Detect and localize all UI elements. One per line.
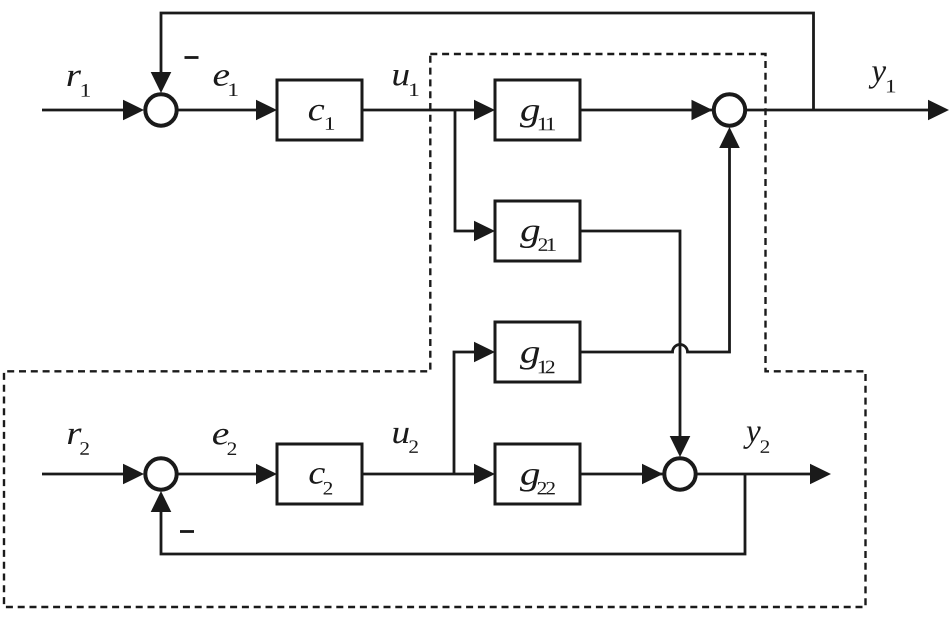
wire y1 feedback to S1: [161, 13, 814, 110]
label g22 in block: [520, 469, 555, 494]
label y2: [743, 427, 769, 453]
arrow e2 into block c2: [256, 464, 277, 485]
label g21 in block: [520, 225, 556, 250]
summing junction S1: [145, 94, 176, 125]
wire g22 output to summing junction S4: [580, 473, 666, 476]
wire y2 output with feedback tap node: [697, 473, 813, 476]
block c2: [277, 444, 362, 504]
wire u2 : block c2 to block g22 with branch node: [362, 473, 478, 476]
summing junction S2: [145, 458, 176, 489]
label r1: [67, 70, 90, 96]
arrow feedback into S1 top: [151, 72, 172, 93]
label g12 in block: [520, 347, 555, 373]
arrow g21 path into S4 top: [670, 436, 691, 457]
wire e2 : S2 to block c2: [178, 473, 260, 476]
arrow g12 path into S3 bottom: [719, 127, 740, 148]
label c2 in block: [310, 468, 333, 495]
wire g11 output to summing junction S3: [580, 109, 716, 112]
arrow u1 into block g11: [474, 100, 495, 121]
wire r1 input: [42, 109, 126, 112]
wire u1 : block c1 to block g11 with branch node: [362, 109, 478, 112]
wire r2 input: [42, 473, 126, 476]
minus sign at S2: [180, 530, 194, 533]
arrow e1 into block c1: [256, 100, 277, 121]
wire e1 : S1 to block c1: [178, 109, 260, 112]
arrow u2 into block g22: [474, 464, 495, 485]
label e1: [214, 70, 238, 96]
label u2: [393, 428, 418, 453]
label u1: [393, 70, 418, 96]
arrow feedback into S2 bottom: [151, 491, 172, 512]
block g11: [495, 80, 580, 140]
summing junction S4: [664, 458, 695, 489]
label e2: [213, 429, 236, 455]
label r2: [68, 428, 89, 454]
wire g12 output with crossover hop up to S3: [580, 144, 730, 352]
label y1: [869, 66, 896, 92]
arrow r2 into summing junction S2: [123, 464, 144, 485]
label g11 in block: [520, 105, 555, 130]
block c1: [277, 80, 362, 140]
wire y1 output with feedback tap node: [747, 109, 931, 112]
arrow into block g21: [474, 221, 495, 242]
summing junction S3: [714, 94, 745, 125]
arrow r1 into summing junction S1: [123, 100, 144, 121]
arrow into block g12: [474, 342, 495, 363]
block g21: [495, 201, 580, 261]
block g22: [495, 444, 580, 504]
label c1 in block: [309, 105, 334, 130]
minus sign at S1: [185, 56, 199, 59]
arrow g11 output into S3: [692, 100, 713, 121]
arrow y2 output: [810, 464, 831, 485]
arrow y1 output: [928, 100, 949, 121]
wire u2 branch up to g12: [454, 352, 478, 474]
wire g21 output down to summing junction S4: [580, 231, 680, 440]
arrow g22 output into S4: [642, 464, 663, 485]
block g12: [495, 322, 580, 382]
wire u1 branch down to g21: [455, 110, 478, 231]
wire y2 feedback to S2: [161, 474, 745, 554]
